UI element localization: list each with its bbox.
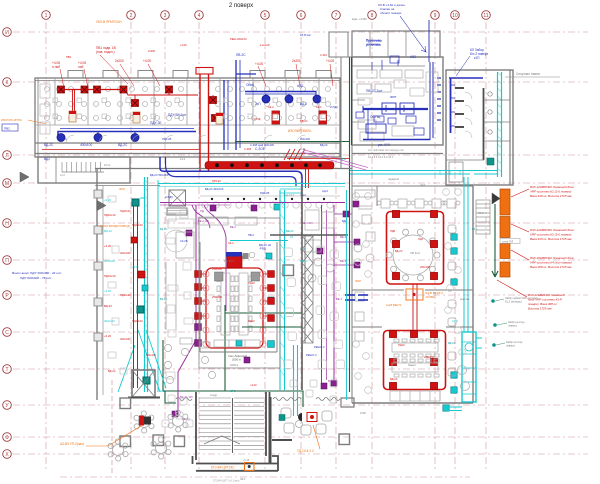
svg-text:ОВиК: ОВиК bbox=[246, 83, 254, 87]
svg-text:лифт 2: лифт 2 bbox=[260, 155, 269, 159]
cyan branch atrium top bbox=[158, 183, 345, 185]
extra cyan horizontals junction bbox=[280, 189, 302, 193]
blue supply header east rooms bbox=[245, 91, 316, 97]
restaurant partition walls bbox=[352, 186, 473, 327]
svg-text:ПД8: ПД8 bbox=[390, 229, 396, 233]
svg-text:РАЗ-12НВ8СМ2 Зовнішній блок: РАЗ-12НВ8СМ2 Зовнішній блок bbox=[530, 228, 574, 232]
banquet long tables bbox=[390, 339, 440, 401]
green boundary corridor horizontal bbox=[235, 141, 350, 143]
svg-text:ВЕ-2: ВЕ-2 bbox=[230, 225, 236, 229]
svg-text:+0.45: +0.45 bbox=[243, 459, 250, 462]
svg-text:Вага 416 кг. Висота 1725 мм: Вага 416 кг. Висота 1725 мм bbox=[530, 194, 571, 198]
red duct branch lines bbox=[73, 90, 214, 111]
grand stair walls bbox=[193, 392, 279, 471]
svg-text:ПД10х10: ПД10х10 bbox=[120, 209, 131, 213]
svg-text:+4.05: +4.05 bbox=[180, 43, 187, 47]
north wing outer walls bbox=[35, 78, 340, 157]
teal box right block bbox=[487, 158, 494, 165]
red link duct vip to banquet bbox=[413, 284, 417, 330]
cyan diffuser boxes central bbox=[132, 199, 280, 383]
svg-text:РЕШ.Р-2: РЕШ.Р-2 bbox=[306, 353, 317, 357]
black note lift hall bbox=[228, 354, 247, 362]
orange symbol box bottom bbox=[245, 463, 255, 471]
red boxes on west riser bbox=[131, 237, 145, 278]
green fire boundary vertical axis 6 bbox=[163, 57, 352, 407]
purple texts central extra bbox=[180, 219, 342, 399]
svg-text:РАЗ-12НВ8СМ2 Зовнішній блок: РАЗ-12НВ8СМ2 Зовнішній блок bbox=[530, 185, 574, 189]
kitchen block outer walls bbox=[329, 31, 443, 154]
svg-text:+4.05: +4.05 bbox=[255, 62, 263, 66]
kitchen extra counters bbox=[358, 72, 438, 105]
ballroom supply unit red-blue bbox=[227, 256, 242, 268]
svg-text:ВЕ-2 125: ВЕ-2 125 bbox=[198, 219, 209, 223]
svg-text:VRF-системи К1 (2-й поверх): VRF-системи К1 (2-й поверх) bbox=[530, 190, 571, 194]
west elevation arrow marker lower bbox=[97, 201, 106, 211]
svg-text:Висота 1725 мм: Висота 1725 мм bbox=[528, 307, 551, 311]
svg-text:КЛ: КЛ bbox=[290, 235, 294, 239]
blue supply header west rooms bbox=[58, 129, 196, 138]
svg-text:сх.2: сх.2 bbox=[60, 173, 65, 177]
svg-text:П: П bbox=[5, 258, 9, 264]
red riser west corridor bbox=[134, 200, 138, 388]
svg-text:Набір на 3-му: Набір на 3-му bbox=[506, 340, 523, 344]
ballroom room walls bbox=[200, 242, 277, 352]
cyan wide duct southeast bbox=[462, 332, 476, 402]
red drop at east end of bar bbox=[306, 169, 309, 188]
svg-text:ВД-2С: ВД-2С bbox=[300, 259, 308, 263]
red exhaust duct with dampers south of wing bbox=[42, 149, 200, 151]
svg-text:ВД-2С 500х300: ВД-2С 500х300 bbox=[150, 173, 169, 177]
svg-text:поверсі: поверсі bbox=[506, 344, 515, 348]
grid axis bubbles left bbox=[3, 28, 12, 459]
svg-text:ПД10х10: ПД10х10 bbox=[120, 293, 131, 297]
blue intake note axis 8 bbox=[378, 3, 405, 15]
svg-text:400х100: 400х100 bbox=[146, 353, 157, 357]
svg-text:поверх). Вага 308 кг.: поверх). Вага 308 кг. bbox=[528, 302, 558, 306]
svg-text:ПДУ-2Б: ПДУ-2Б bbox=[260, 191, 270, 195]
svg-text:поверсі: поверсі bbox=[508, 324, 517, 328]
terrace tables with chairs bbox=[108, 410, 188, 461]
corridor tiny text row south of kitchen bbox=[368, 148, 404, 159]
svg-text:9: 9 bbox=[434, 13, 437, 19]
svg-text:ВД-2С: ВД-2С bbox=[395, 249, 403, 253]
svg-text:ПД10х10: ПД10х10 bbox=[132, 223, 143, 227]
svg-text:250х100: 250х100 bbox=[424, 355, 435, 359]
svg-text:ПВ1: ПВ1 bbox=[66, 55, 72, 59]
svg-text:VRF-системи К2 (3-й поверх): VRF-системи К2 (3-й поверх) bbox=[530, 233, 571, 237]
red supply duct header west rooms bbox=[58, 89, 125, 91]
svg-text:АД-3: АД-3 bbox=[322, 189, 328, 193]
svg-text:12.4 8.6 24.0 6.2 18.1: 12.4 8.6 24.0 6.2 18.1 bbox=[368, 155, 394, 159]
svg-text:И: И bbox=[5, 30, 9, 36]
svg-text:+3.20: +3.20 bbox=[104, 289, 112, 293]
cyan riser restaurant east bbox=[445, 177, 482, 411]
svg-text:С-ЗОБ: С-ЗОБ bbox=[255, 147, 265, 151]
svg-text:2000 кг: 2000 кг bbox=[230, 363, 239, 367]
green boundary ballroom spur bbox=[225, 305, 302, 391]
svg-text:бар 12.2: бар 12.2 bbox=[284, 193, 295, 197]
north wing room partitions bbox=[35, 78, 340, 125]
svg-text:М: М bbox=[5, 181, 9, 187]
restaurant escape stair bbox=[476, 200, 490, 234]
svg-text:400х100: 400х100 bbox=[300, 137, 311, 141]
svg-text:ЛК-1: ЛК-1 bbox=[240, 477, 246, 481]
purple tiny labels bbox=[182, 209, 347, 421]
svg-text:ВД-2С: ВД-2С bbox=[286, 229, 294, 233]
svg-text:Набір підйом VRF-системи: Набір підйом VRF-системи bbox=[505, 296, 538, 300]
svg-text:16 м²: 16 м² bbox=[104, 163, 110, 167]
svg-text:Узел Лифтовой: Узел Лифтовой bbox=[228, 354, 247, 358]
cyan main trunk west corridor bbox=[140, 177, 345, 392]
svg-text:ВД-2С: ВД-2С bbox=[118, 143, 128, 147]
west stair block walls bbox=[38, 157, 130, 183]
svg-text:ПД: ПД bbox=[200, 209, 204, 213]
purple s-curves atrium bbox=[192, 205, 226, 237]
central block west wall with pilasters bbox=[96, 168, 98, 400]
svg-text:В2-2С: В2-2С bbox=[160, 227, 167, 231]
blue label ballroom bbox=[259, 243, 272, 251]
svg-text:2х200: 2х200 bbox=[148, 49, 156, 53]
svg-text:ВД-2С: ВД-2С bbox=[104, 304, 112, 308]
svg-text:-П2/В6: -П2/В6 bbox=[425, 295, 435, 299]
svg-text:ПР2-2С: ПР2-2С bbox=[212, 179, 221, 183]
cyan x-braced shaft ballroom east bbox=[118, 190, 298, 416]
stair hall right wall bbox=[270, 397, 292, 463]
purple riser ballroom west bbox=[178, 205, 196, 414]
svg-text:Вага 208 кг. Висота 1725 мм: Вага 208 кг. Висота 1725 мм bbox=[530, 265, 571, 269]
svg-text:+3.20: +3.20 bbox=[250, 383, 257, 387]
wing corridor door arcs bbox=[66, 135, 305, 143]
svg-text:сходи: сходи bbox=[210, 394, 217, 397]
svg-text:СК-2В: СК-2В bbox=[180, 239, 188, 243]
svg-text:ВЕ-3: ВЕ-3 bbox=[340, 259, 347, 263]
svg-text:ИЗОЛ.ВОЗДУХОВОД: ИЗОЛ.ВОЗДУХОВОД bbox=[100, 224, 130, 228]
fan-coil units east red caps bbox=[272, 111, 327, 124]
svg-text:решітка: решітка bbox=[460, 297, 470, 301]
svg-text:уст.-КУХ: уст.-КУХ bbox=[378, 143, 391, 147]
extra wing red texts east bbox=[254, 105, 322, 123]
svg-text:Ф: Ф bbox=[5, 435, 9, 441]
teal box stair hall bbox=[279, 415, 285, 421]
light furniture scatter east of ballroom bbox=[284, 246, 345, 369]
vrf red leader lines bbox=[497, 189, 529, 297]
grand stair treads bbox=[199, 398, 264, 450]
restaurant east wall bbox=[352, 145, 473, 403]
red main duct bar corridor with dampers bbox=[205, 162, 334, 170]
ballroom room walls bbox=[199, 218, 280, 368]
blue main duct bar atrium top bbox=[160, 157, 302, 186]
blue box label left edge bbox=[2, 124, 18, 131]
red leader lines top of wing bbox=[60, 55, 333, 88]
svg-text:С-308: С-308 bbox=[244, 147, 252, 151]
svg-text:+3.20: +3.20 bbox=[104, 334, 112, 338]
blue intake label right block bbox=[470, 48, 489, 60]
svg-text:ПД10х10: ПД10х10 bbox=[104, 274, 116, 278]
svg-text:400х100: 400х100 bbox=[104, 259, 115, 263]
svg-text:2хПД: 2хПД bbox=[254, 117, 261, 121]
svg-text:В2: В2 bbox=[472, 227, 476, 231]
ballroom diffuser squares left column bbox=[195, 271, 275, 348]
purple riser ballroom centre bbox=[225, 237, 227, 311]
purple riser ballroom east bbox=[321, 205, 323, 383]
svg-text:зонт: зонт bbox=[390, 95, 397, 99]
vrf green refrigerant line bbox=[492, 204, 498, 277]
corridor blue texts east bbox=[250, 143, 328, 147]
ballroom long tables bbox=[214, 273, 260, 347]
svg-text:РЕШ.Р-2: РЕШ.Р-2 bbox=[314, 345, 325, 349]
svg-text:2х200: 2х200 bbox=[115, 59, 124, 63]
svg-text:ПВ-2: ПВ-2 bbox=[248, 233, 254, 237]
cyan vertical at restaurant wall bbox=[346, 190, 348, 400]
svg-text:+4.05: +4.05 bbox=[143, 59, 151, 63]
bar counter row atrium bbox=[165, 196, 340, 252]
door arcs right block bbox=[465, 92, 472, 138]
cyan drop to stair hall bbox=[293, 345, 295, 416]
hall buffet tables bbox=[164, 338, 215, 384]
svg-text:КЛ-В 2шт: КЛ-В 2шт bbox=[300, 33, 312, 37]
svg-text:Набір на 2-му: Набір на 2-му bbox=[508, 320, 525, 324]
vrf dark feed triangle bbox=[492, 193, 500, 204]
svg-text:РАЗ-16НВ8СМ2 Зовнішній блок: РАЗ-16НВ8СМ2 Зовнішній блок bbox=[530, 256, 574, 260]
kitchen blue labels bbox=[366, 39, 416, 147]
purple diffuser squares bbox=[172, 201, 360, 417]
svg-text:+3.20: +3.20 bbox=[132, 265, 139, 269]
central blue tiny texts bbox=[165, 187, 347, 357]
svg-text:ВД-2С 400х100: ВД-2С 400х100 bbox=[205, 187, 224, 191]
svg-text:гардероб: гардероб bbox=[388, 177, 400, 181]
kitchen blue equipment extra bbox=[356, 56, 424, 135]
vrf red labels right margin bbox=[528, 185, 574, 311]
restaurant coat room fixtures bbox=[355, 190, 375, 209]
svg-text:ВД-2С: ВД-2С bbox=[44, 143, 54, 147]
north wing balcony bumps bbox=[68, 71, 331, 79]
red corridor line east bbox=[287, 158, 350, 160]
ballroom hatched columns bbox=[215, 272, 260, 281]
svg-text:8: 8 bbox=[371, 13, 374, 19]
link walls wing to kitchen bbox=[341, 57, 352, 168]
blue annotation texts wing bbox=[44, 53, 307, 161]
svg-text:К: К bbox=[6, 80, 9, 86]
svg-text:Н: Н bbox=[5, 221, 9, 227]
svg-text:ВД-2С: ВД-2С bbox=[320, 143, 328, 147]
svg-text:Л: Л bbox=[5, 153, 8, 159]
curtain partitions wavy bbox=[176, 398, 340, 401]
svg-text:АР-2: АР-2 bbox=[452, 319, 458, 323]
blue riser ducts corridor bbox=[224, 60, 256, 150]
svg-text:5ТЗ-В4 ЦРГ 2чС (зал): 5ТЗ-В4 ЦРГ 2чС (зал) bbox=[213, 479, 239, 483]
svg-text:ВЕ-3: ВЕ-3 bbox=[336, 297, 342, 301]
pink diagonal duct from kitchen bbox=[302, 150, 368, 171]
svg-text:400х100: 400х100 bbox=[80, 143, 92, 147]
grid vertical axis lines bbox=[46, 22, 486, 470]
svg-text:Спортзал нижче: Спортзал нижче bbox=[516, 72, 540, 76]
west elevation arrow marker upper bbox=[20, 172, 29, 182]
central block top wall bbox=[95, 168, 352, 400]
svg-text:в коробі: в коробі bbox=[260, 43, 270, 47]
vip room red duct loop bbox=[387, 212, 444, 285]
svg-text:-РЯД: -РЯД bbox=[259, 247, 266, 251]
ahu label orange box bbox=[406, 289, 423, 300]
restaurant mid tables west bbox=[354, 215, 375, 341]
cyan tiny texts central bbox=[160, 157, 476, 393]
svg-text:10: 10 bbox=[452, 13, 458, 19]
svg-text:АД2: АД2 bbox=[297, 84, 303, 88]
wall horizontal mid split bbox=[270, 234, 348, 236]
svg-text:хол ліфтовий хол коридор с/: хол ліфтовий хол коридор с/в bbox=[368, 148, 404, 152]
teal boxes on west riser bbox=[132, 199, 150, 384]
svg-text:2: 2 bbox=[130, 13, 133, 19]
teal refnet dots with notes bbox=[491, 296, 538, 348]
svg-text:2 поверх: 2 поверх bbox=[229, 3, 253, 9]
hall fan unit with red mark bbox=[298, 413, 302, 421]
green spur second bbox=[242, 326, 302, 328]
red riser double duct at axis 4 bbox=[196, 68, 213, 172]
svg-text:ВД-2С: ВД-2С bbox=[448, 341, 456, 345]
elevator shaft bbox=[128, 370, 160, 398]
svg-text:ПДУ: ПДУ bbox=[418, 237, 424, 241]
svg-text:VIP 42.0: VIP 42.0 bbox=[410, 251, 420, 255]
svg-text:К1,2 (на відм.): К1,2 (на відм.) bbox=[505, 300, 522, 304]
svg-text:С-310: С-310 bbox=[320, 53, 328, 57]
svg-text:ИЗОЛ РК-2ПУМ: ИЗОЛ РК-2ПУМ bbox=[1, 118, 22, 122]
light furniture hall bottom bbox=[162, 380, 337, 427]
restaurant cyan wall stack east bbox=[443, 234, 457, 411]
svg-text:КЛ-2: КЛ-2 bbox=[230, 389, 236, 393]
svg-text:відм. +4.050: відм. +4.050 bbox=[352, 17, 367, 21]
right block inner partitions bbox=[484, 92, 510, 141]
blue damper circles east bbox=[262, 95, 321, 103]
svg-text:С: С bbox=[5, 330, 9, 336]
right block door bars dark bbox=[455, 88, 464, 127]
svg-text:ПД10: ПД10 bbox=[248, 281, 255, 285]
blue note axis 6 top bbox=[366, 38, 381, 46]
svg-text:АВ2: АВ2 bbox=[410, 55, 416, 59]
svg-text:ИЗОЛИРОВАТЬ: ИЗОЛИРОВАТЬ bbox=[288, 129, 311, 133]
svg-text:ВД-2С: ВД-2С bbox=[300, 119, 308, 123]
north wing furniture columns bbox=[45, 87, 331, 121]
svg-text:області пожари: області пожари bbox=[380, 11, 402, 15]
svg-text:С-308 край 400х100: С-308 край 400х100 bbox=[250, 143, 274, 147]
svg-text:2х200: 2х200 bbox=[292, 59, 301, 63]
banquet room red duct loop bbox=[384, 331, 446, 390]
dumbwaiter shaft bbox=[167, 190, 187, 215]
svg-text:ЛК-2: ЛК-2 bbox=[478, 211, 484, 215]
west stair treads bbox=[62, 162, 104, 172]
svg-text:3: 3 bbox=[164, 13, 167, 19]
cyan branch to ballroom bbox=[230, 240, 288, 242]
vrf outdoor unit blocks orange bbox=[500, 189, 510, 277]
red hatch marks above bar bbox=[284, 149, 305, 160]
light furniture scatter central west bbox=[108, 196, 193, 379]
vip round table bbox=[386, 229, 440, 281]
svg-text:п.либ: п.либ bbox=[52, 65, 60, 69]
grand stair break line bbox=[204, 436, 240, 444]
svg-text:2хПДУ: 2хПДУ bbox=[165, 195, 173, 199]
svg-text:250х100: 250х100 bbox=[212, 295, 223, 299]
svg-text:РЕШ 200х100: РЕШ 200х100 bbox=[230, 37, 247, 41]
cyan diagonals southwest hall bbox=[118, 330, 166, 392]
black dots bar row bbox=[211, 198, 325, 200]
svg-text:ВД2С: ВД2С bbox=[60, 137, 67, 141]
svg-text:ПВ-2С: ПВ-2С bbox=[236, 53, 246, 57]
blue duct right block bbox=[449, 78, 483, 133]
svg-text:ПД10х10: ПД10х10 bbox=[104, 213, 116, 217]
west corridor cyan texts column bbox=[104, 198, 116, 338]
svg-text:7: 7 bbox=[335, 13, 338, 19]
svg-text:5: 5 bbox=[264, 13, 267, 19]
kitchen blue hood duct loop bbox=[363, 20, 433, 140]
x-braced shaft column bbox=[302, 236, 313, 343]
svg-text:АД-2: АД-2 bbox=[300, 193, 306, 197]
svg-text:4: 4 bbox=[198, 13, 201, 19]
vip red diffuser squares bbox=[392, 210, 437, 279]
svg-text:ПД10х10: ПД10х10 bbox=[132, 319, 143, 323]
terrace dashed boundary bbox=[111, 380, 113, 474]
svg-text:КЛ-В: КЛ-В bbox=[340, 157, 346, 161]
svg-text:ПВ2: ПВ2 bbox=[4, 127, 10, 131]
svg-text:УКЛ-В ПРИТОЧН: УКЛ-В ПРИТОЧН bbox=[96, 20, 122, 24]
svg-text:2хПДУ: 2хПДУ bbox=[330, 105, 338, 109]
svg-text:6: 6 bbox=[300, 13, 303, 19]
svg-text:Об-Пщ: Об-Пщ bbox=[370, 115, 381, 119]
kitchen blue door dashes bbox=[437, 78, 441, 120]
wing west end interior bbox=[40, 84, 50, 134]
svg-text:VRF-системи К4 (хол поверх): VRF-системи К4 (хол поверх) bbox=[530, 261, 572, 265]
svg-text:АК-2: АК-2 bbox=[316, 105, 322, 109]
svg-text:к1П: к1П bbox=[474, 56, 480, 60]
terrace fan unit red mark bbox=[139, 416, 144, 426]
hall lounge sofas bbox=[281, 408, 332, 435]
svg-text:ПДУ-2Б: ПДУ-2Б bbox=[150, 121, 161, 125]
banquet table row south bbox=[390, 391, 440, 401]
svg-text:1: 1 bbox=[45, 13, 48, 19]
svg-text:400х100: 400х100 bbox=[120, 251, 131, 255]
purple riser restaurant west bbox=[333, 205, 335, 383]
svg-text:250х100: 250х100 bbox=[212, 267, 223, 271]
svg-text:24.6: 24.6 bbox=[420, 183, 426, 187]
svg-text:2.40: 2.40 bbox=[300, 147, 306, 151]
svg-text:Т: Т bbox=[5, 367, 8, 373]
blue dash pair hall bbox=[345, 295, 368, 300]
cyan riser duct right facade bbox=[498, 72, 502, 177]
svg-text:ІЗОЛ: ІЗОЛ bbox=[119, 187, 125, 191]
svg-text:Винос вент ПДУ 390х390 - 44 шт: Винос вент ПДУ 390х390 - 44 шт bbox=[12, 271, 62, 275]
red texts west corridor extra bbox=[108, 209, 131, 373]
cyan duct horizontal at terrace bbox=[350, 170, 497, 175]
ballroom inner red texts bbox=[212, 229, 435, 381]
svg-text:400х100: 400х100 bbox=[120, 337, 131, 341]
blue damper circles west bbox=[57, 134, 139, 142]
svg-text:ТД-10-4.2.2: ТД-10-4.2.2 bbox=[297, 449, 314, 453]
svg-text:Вага 415 кг. Висота 1725 мм: Вага 415 кг. Висота 1725 мм bbox=[530, 237, 571, 241]
svg-text:стена ГКЛ: стена ГКЛ bbox=[502, 240, 514, 243]
extra tiny texts scatter bbox=[60, 17, 484, 481]
svg-text:ВД-2С: ВД-2С bbox=[390, 377, 398, 381]
light furniture restaurant middle bbox=[353, 189, 466, 394]
svg-text:установка: установка bbox=[366, 42, 380, 46]
svg-text:11: 11 bbox=[483, 13, 488, 19]
svg-text:банкет: банкет bbox=[408, 363, 417, 367]
green boundary stair hall bbox=[163, 340, 303, 407]
purple branches restaurant bbox=[334, 214, 357, 265]
svg-text:ПВ-2С 2шт: ПВ-2С 2шт bbox=[366, 89, 383, 93]
kitchen equipment counters gray bbox=[357, 70, 423, 141]
terrace orange leader and label bbox=[86, 426, 141, 446]
svg-text:2700: 2700 bbox=[360, 411, 366, 415]
gym note line top right bbox=[505, 76, 560, 78]
small squares wing columns bbox=[53, 98, 326, 119]
svg-text:250х100: 250х100 bbox=[420, 265, 431, 269]
